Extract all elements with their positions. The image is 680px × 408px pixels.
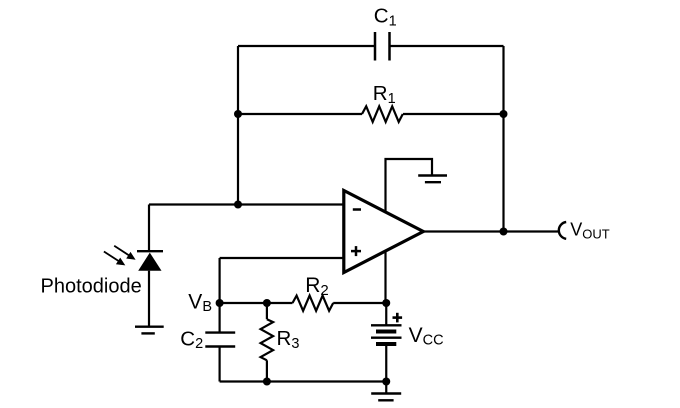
ground (photodiode) [135,327,164,334]
op-amp U1 [344,191,424,273]
wire R3 top lead [266,303,268,319]
node dot: VB at left vertical [216,299,224,307]
node dot: R3 bottom [263,378,271,386]
wire bias-network left vertical upper [219,258,221,333]
capacitor C2 [205,333,235,347]
wire left vertical (C1/R1 to inverting node) [237,46,239,205]
wire top C1 branch right [390,45,504,47]
op-amp plus sign [351,246,361,256]
wire bias-network left vertical lower [219,347,221,382]
wire R1 left lead [238,113,362,115]
svg-text:Photodiode: Photodiode [41,276,142,298]
wire ground stub (battery) [385,382,387,394]
node dot: R3 top [263,299,271,307]
node dot: R2 right / battery top [382,299,390,307]
svg-text:C1: C1 [374,5,397,30]
battery VCC [371,325,402,344]
svg-text:VCC: VCC [409,324,444,348]
wire op-amp V- pin to battery [384,251,386,304]
wire battery bottom lead [385,344,387,382]
wire VB row left segment [220,302,293,304]
wire output [423,230,558,232]
battery plus sign [393,313,403,323]
svg-text:R3: R3 [277,327,300,352]
light arrow 2 [104,252,125,266]
capacitor C1 [375,32,390,61]
resistor R3 [261,319,274,360]
wire op-amp V+ pin [386,159,433,213]
terminal VOUT open circle [559,222,566,239]
ground (op-amp V+) [418,176,447,183]
node dot: inverting input junction [234,201,242,209]
op-amp minus sign [353,208,361,211]
svg-text:R2: R2 [305,274,329,299]
wire inverting input [149,203,345,205]
wire right vertical (C1/R1 to output node) [502,46,504,232]
wire non-inverting input [220,257,345,259]
ground (bottom rail) [371,394,401,401]
wire R3 bottom lead [266,360,268,381]
wire VB row right segment [333,302,386,304]
photodiode D1 [137,251,163,326]
node dot: left R1 junction [234,110,242,118]
svg-text:C2: C2 [180,327,203,352]
wire photodiode anode vertical [148,205,150,252]
light arrow 1 [114,246,135,260]
wire R1 right lead [403,113,504,115]
resistor R1 [362,106,403,122]
svg-text:R1: R1 [373,82,396,107]
node dot: battery bottom [382,378,390,386]
wire battery top lead [385,303,387,325]
node dot: output junction [500,228,508,236]
resistor R2 [293,296,334,311]
svg-text:VOUT: VOUT [570,220,610,242]
wire bottom rail [220,380,387,382]
node dot: right R1 junction [500,110,508,118]
svg-text:VB: VB [188,291,212,316]
wire top C1 branch left [238,45,375,47]
